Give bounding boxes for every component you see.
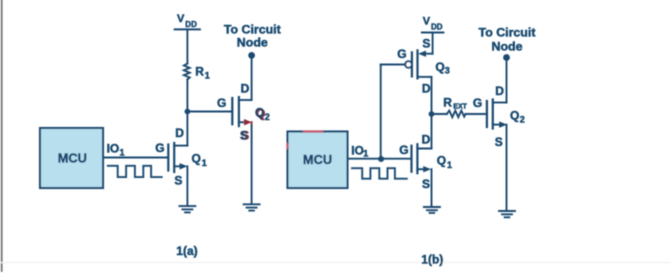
label To Circuit Node (a) bbox=[224, 23, 281, 50]
red annotation tick on MCU left border bbox=[286, 144, 288, 148]
svg-text:G: G bbox=[155, 141, 164, 155]
svg-text:G: G bbox=[217, 96, 226, 110]
svg-text:MCU: MCU bbox=[58, 151, 87, 166]
transistor Q2 (b) NMOS bbox=[473, 84, 525, 149]
svg-text:IO: IO bbox=[351, 143, 364, 157]
svg-text:G: G bbox=[473, 96, 482, 110]
svg-text:R: R bbox=[443, 95, 452, 109]
resistor R1 bbox=[184, 64, 210, 81]
wire REXT to Q2 gate bbox=[466, 113, 487, 115]
wire Q3 drain to junction bbox=[431, 77, 433, 114]
ground under Q2 (b) bbox=[499, 211, 515, 217]
svg-text:Node: Node bbox=[492, 39, 523, 53]
ground under Q1 (b) bbox=[424, 207, 440, 213]
wire R1 to node bbox=[186, 80, 188, 111]
svg-text:IO: IO bbox=[107, 142, 120, 156]
svg-text:EXT: EXT bbox=[453, 103, 467, 110]
svg-text:G: G bbox=[397, 47, 406, 61]
svg-text:D: D bbox=[422, 82, 431, 96]
pulse waveform (a) bbox=[108, 166, 162, 177]
label To Circuit Node (b) bbox=[479, 25, 536, 53]
svg-text:Q: Q bbox=[435, 60, 444, 74]
svg-text:2: 2 bbox=[520, 114, 525, 124]
transistor Q3 (b) PMOS bbox=[397, 37, 450, 96]
pulse waveform (b) bbox=[352, 168, 407, 179]
transistor Q2 (a) NMOS bbox=[217, 82, 270, 143]
svg-text:To Circuit: To Circuit bbox=[479, 25, 536, 39]
wire circuit node to Q2 drain bbox=[251, 55, 253, 100]
svg-text:Node: Node bbox=[237, 35, 268, 49]
junction dot on IO1 wire bbox=[378, 156, 384, 162]
svg-text:1: 1 bbox=[447, 160, 452, 170]
MCU block (a) bbox=[40, 128, 103, 188]
svg-text:D: D bbox=[175, 126, 184, 140]
svg-text:D: D bbox=[495, 84, 504, 98]
wire Q3 gate down to IO1 node bbox=[381, 65, 406, 159]
svg-text:1(b): 1(b) bbox=[421, 252, 443, 266]
node A terminal dot (a) bbox=[248, 52, 255, 59]
svg-text:V: V bbox=[423, 16, 431, 28]
svg-text:DD: DD bbox=[185, 20, 197, 29]
svg-text:S: S bbox=[174, 173, 182, 187]
wire node down to Q1 drain bbox=[186, 111, 188, 146]
label IO1 (a) bbox=[107, 142, 125, 158]
MCU block (b) bbox=[288, 132, 348, 189]
svg-text:S: S bbox=[422, 37, 430, 51]
wire node to Q2 gate bbox=[187, 111, 232, 113]
wire Q2 source to ground (b) bbox=[506, 125, 508, 211]
red annotation mark on MCU top border bbox=[304, 130, 322, 132]
wire VDD to R1 bbox=[186, 29, 188, 63]
wire MCU to Q1 gate bbox=[103, 157, 168, 159]
svg-text:1: 1 bbox=[363, 149, 368, 159]
svg-text:D: D bbox=[422, 132, 431, 146]
svg-text:1: 1 bbox=[205, 70, 210, 80]
wire Q2 source to ground (a) bbox=[251, 122, 253, 125]
left gray page border bbox=[1, 0, 3, 271]
svg-text:R: R bbox=[195, 65, 204, 79]
supply VDD (a) bbox=[175, 13, 200, 30]
node junction dot (a) bbox=[185, 109, 191, 115]
wire junction to REXT bbox=[432, 113, 447, 115]
svg-text:Q: Q bbox=[437, 153, 446, 167]
svg-text:D: D bbox=[241, 82, 250, 96]
node B terminal dot (b) bbox=[503, 54, 510, 61]
ground under Q1 (a) bbox=[179, 206, 195, 212]
resistor REXT bbox=[443, 95, 467, 117]
svg-text:1(a): 1(a) bbox=[176, 244, 197, 258]
svg-text:Q: Q bbox=[192, 152, 201, 166]
supply VDD (b) bbox=[422, 16, 444, 33]
wire circuit node to Q2 drain (b) bbox=[506, 58, 508, 103]
junction node dot (b) bbox=[429, 111, 435, 117]
faint bottom rule bbox=[0, 262, 671, 264]
svg-text:DD: DD bbox=[431, 22, 443, 31]
wire VDD to Q3 source bbox=[432, 33, 434, 54]
svg-text:Q: Q bbox=[510, 108, 519, 122]
ground under Q2 (a) bbox=[244, 204, 260, 210]
svg-text:G: G bbox=[399, 143, 408, 157]
svg-text:S: S bbox=[422, 177, 430, 191]
label IO1 (b) bbox=[351, 143, 368, 158]
svg-text:1: 1 bbox=[120, 148, 125, 158]
wire MCU to Q1 gate (b) bbox=[348, 158, 412, 160]
wire Q1 source to ground (a) bbox=[186, 166, 188, 205]
svg-text:S: S bbox=[495, 135, 503, 149]
wire Q1 source to ground (b) bbox=[431, 169, 433, 206]
svg-text:1: 1 bbox=[202, 158, 207, 168]
svg-text:Q: Q bbox=[255, 106, 264, 120]
transistor Q1 (b) NMOS bbox=[399, 132, 452, 191]
svg-text:3: 3 bbox=[445, 66, 450, 76]
wire junction down to Q1 drain bbox=[431, 114, 433, 149]
svg-text:V: V bbox=[177, 13, 185, 25]
transistor Q1 (a) NMOS bbox=[155, 126, 207, 187]
svg-text:MCU: MCU bbox=[303, 152, 332, 167]
svg-text:S: S bbox=[240, 128, 248, 142]
svg-text:2: 2 bbox=[265, 112, 270, 122]
